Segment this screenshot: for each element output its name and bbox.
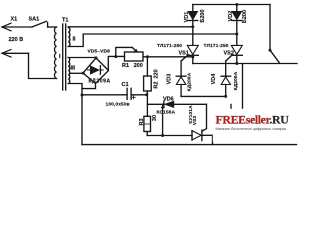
- transformer T1 primary winding I: [55, 27, 57, 79]
- wire (winding II top to VD1 cathode node): [68, 26, 193, 28]
- svg-text:VD6: VD6: [163, 97, 174, 103]
- svg-text:II: II: [73, 37, 77, 43]
- wire (output branch down, cut by logo): [242, 64, 244, 110]
- svg-text:T1: T1: [62, 18, 68, 24]
- svg-text:30: 30: [152, 115, 158, 121]
- node R1 bypass: [114, 55, 117, 58]
- svg-text:КД209А: КД209А: [233, 71, 239, 90]
- resistor R2 (220): [144, 57, 152, 117]
- wire (bridge plus up and right to R1): [108, 56, 124, 70]
- plug X1 pin 1 (upper mains arrow): [2, 23, 32, 31]
- node VD2 cathode / winding II: [235, 33, 238, 36]
- wire (winding III bottom to minus rail): [68, 84, 82, 145]
- svg-text:SA1: SA1: [29, 17, 40, 23]
- thyristor VS1 TL171-250: [181, 45, 198, 63]
- plug X1 pin 2 (lower mains arrow): [2, 50, 29, 58]
- node R2 top: [146, 55, 149, 58]
- zener diode VD6 KC156A: [147, 101, 206, 108]
- node VS1 cathode: [191, 55, 194, 58]
- svg-text:КД209А: КД209А: [89, 79, 111, 85]
- node VD2 top rail: [235, 3, 238, 6]
- diode VD1 B200: [188, 5, 198, 46]
- logo white box: [213, 109, 299, 142]
- switch SA1: [32, 21, 48, 27]
- node R3 bottom wire: [161, 134, 164, 137]
- node C1 left / minus rail: [81, 94, 84, 97]
- wire (lower mains lead to primary bottom): [29, 53, 57, 78]
- wire (bottom rail): [82, 144, 297, 146]
- svg-text:C1: C1: [122, 82, 129, 88]
- node VS2 cathode rail: [235, 62, 238, 65]
- wire stub (cut by logo): [230, 105, 232, 110]
- wire (right edge down to output contact): [269, 5, 271, 51]
- wire (top rail): [193, 4, 270, 6]
- rectifier bridge VD5-VD8 diamond: [83, 58, 109, 84]
- diode VD2 B200: [232, 5, 242, 46]
- logo tagline: [216, 127, 287, 131]
- node VD4 anode: [224, 95, 227, 98]
- node bridge top vertex: [95, 56, 98, 59]
- wire (winding II bottom to VD2 cathode node): [68, 34, 237, 47]
- svg-text:FREEseller.RU: FREEseller.RU: [216, 113, 290, 127]
- svg-text:220 В: 220 В: [9, 37, 24, 43]
- wire (VS3 cathode down to bottom rail): [212, 135, 214, 144]
- svg-text:VS2: VS2: [224, 51, 234, 57]
- svg-text:Магазин бесплатных цифровых то: Магазин бесплатных цифровых товаров: [216, 127, 287, 131]
- wire (R1 right to VS1 cathode node): [143, 56, 193, 58]
- svg-text:ТЛ171-250: ТЛ171-250: [157, 43, 182, 49]
- wire (bridge minus to rail): [82, 84, 96, 89]
- wire (winding III tap to bridge left vertex): [70, 72, 83, 74]
- svg-text:Б200: Б200: [242, 10, 248, 23]
- svg-text:III: III: [71, 66, 76, 72]
- rectifier bridge inner diode: [88, 66, 104, 74]
- svg-text:VS1: VS1: [179, 51, 189, 57]
- svg-text:VD1: VD1: [184, 12, 190, 23]
- diode VD3 KD209A: [176, 61, 186, 96]
- capacitor C1 (100,0x50v): [82, 88, 147, 99]
- svg-text:VS3: VS3: [192, 116, 198, 126]
- transformer T1 winding II: [68, 28, 70, 47]
- svg-text:X1: X1: [11, 17, 18, 23]
- svg-text:Б200: Б200: [200, 9, 206, 22]
- svg-text:VD5–VD8: VD5–VD8: [88, 49, 111, 55]
- svg-text:R2 220: R2 220: [153, 69, 159, 88]
- svg-text:R3: R3: [139, 118, 145, 125]
- thyristor VS3 KU101A: [192, 104, 213, 140]
- svg-text:КД209А: КД209А: [187, 72, 193, 91]
- wire (VD3/VD4 anodes junction to VS3 gate): [181, 95, 226, 97]
- svg-text:ТЛ171-250: ТЛ171-250: [204, 43, 229, 49]
- transformer T1 winding III: [68, 58, 69, 84]
- node VD1 cathode / winding II: [191, 25, 194, 28]
- svg-text:100,0х50в: 100,0х50в: [106, 102, 130, 108]
- node output contact pivot: [269, 49, 272, 52]
- wire (middle output rail): [193, 63, 297, 65]
- svg-text:КС156А: КС156А: [157, 110, 176, 116]
- resistor R3 (30): [144, 116, 151, 135]
- node C1 right / R2 bottom: [145, 93, 148, 96]
- svg-text:VD3: VD3: [166, 74, 172, 85]
- thyristor VS2 TL171-250: [226, 45, 243, 63]
- wire (node to VS3 anode wire): [162, 104, 164, 135]
- transformer T1 core: [63, 24, 66, 90]
- svg-text:R1 200: R1 200: [122, 63, 143, 69]
- wire (R3 bottom to VS3 anode): [147, 135, 192, 137]
- wire (switch to primary top): [48, 26, 57, 28]
- node bridge left vertex: [82, 72, 85, 75]
- svg-text:VD2: VD2: [228, 11, 234, 22]
- svg-text:VD4: VD4: [211, 73, 217, 85]
- output contact blade: [270, 50, 280, 63]
- diode VD4 KD209A: [221, 61, 231, 96]
- wire (winding III top to bridge top vertex): [68, 57, 96, 59]
- resistor R1 (variable, 200): [116, 47, 143, 61]
